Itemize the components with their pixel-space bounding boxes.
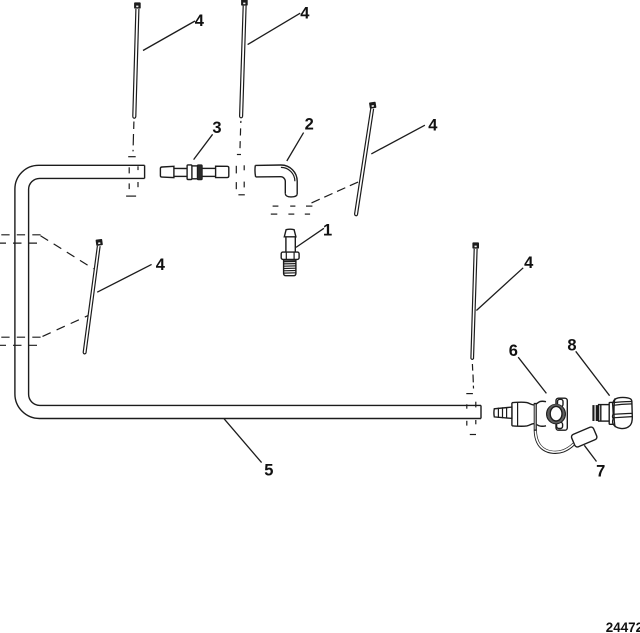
bell ring: [547, 404, 566, 423]
hidden-line wrap marks for tie 4c below elbow: [271, 182, 359, 215]
svg-text:1: 1: [323, 222, 332, 240]
svg-text:7: 7: [596, 463, 605, 481]
cable tie 4d (left diagonal): [83, 239, 103, 354]
svg-text:4: 4: [524, 254, 534, 272]
body outline: [512, 401, 546, 405]
dust cap 7: [571, 426, 598, 448]
mating plug 8: [592, 397, 632, 428]
tether cord of cap 7: [535, 403, 574, 452]
leader line to label 8: [576, 351, 610, 395]
svg-text:2: 2: [305, 115, 314, 133]
barb nipple: [494, 407, 512, 418]
cable tie 4e (right vertical): [471, 242, 479, 359]
svg-text:24472: 24472: [606, 620, 640, 633]
flange plate: [556, 398, 567, 430]
leader line to label 5: [224, 419, 262, 463]
leader line to label 6: [518, 357, 546, 393]
leader line to label 7: [584, 445, 596, 461]
leader line to label 1: [296, 228, 324, 247]
svg-text:4: 4: [195, 12, 205, 30]
svg-text:6: 6: [509, 342, 518, 360]
fitting 1 (threaded hose barb): [281, 229, 299, 276]
cable tie 4c (diagonal, right of elbow): [355, 102, 377, 216]
fitting 3 (inline barb connector): [160, 165, 228, 180]
hidden-line wrap marks for tie 4d on left hose: [0, 235, 94, 345]
svg-text:4: 4: [156, 256, 166, 274]
fuel connector 6: [494, 398, 567, 430]
leader line to label 4 (tie 4e): [476, 268, 523, 311]
leader line to label 4 (tie 4c): [371, 125, 425, 154]
hidden-line wrap marks for tie 4a on hose: [126, 122, 138, 197]
leader line to label 2: [287, 133, 304, 161]
svg-text:4: 4: [300, 5, 310, 23]
leader line to label 3: [194, 134, 213, 159]
leader line to label 4 (tie 4a): [143, 21, 195, 51]
leader line to label 4 (tie 4b): [248, 13, 301, 44]
cable tie 4a (top left vertical): [133, 2, 141, 118]
svg-text:5: 5: [264, 462, 273, 480]
cable tie 4b (top middle vertical): [240, 0, 248, 118]
svg-text:3: 3: [212, 119, 221, 137]
svg-text:4: 4: [428, 116, 438, 134]
hidden-line wrap marks for tie 4b at connector joint: [236, 121, 245, 195]
elbow 2: [255, 165, 297, 197]
fuel hose 5 (long bent tube): [15, 165, 481, 418]
svg-text:8: 8: [567, 336, 576, 354]
hidden-line wrap marks for tie 4e on bottom hose: [466, 364, 476, 435]
leader line to label 4 (tie 4d): [97, 264, 151, 292]
